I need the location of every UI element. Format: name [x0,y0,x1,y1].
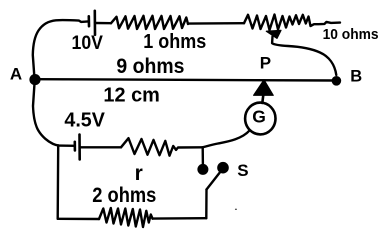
switch S left contact dot [197,164,208,175]
svg-text:12 cm: 12 cm [103,84,159,107]
svg-text:r: r [135,162,143,185]
jockey arrow at P [254,80,274,96]
wire left side of bottom loop up to junction [57,146,60,219]
wire junction to 4.5V battery [58,144,74,147]
wire junction down to switch left contact [201,147,204,165]
switch blade (open) [207,173,220,190]
svg-text:B: B [350,68,362,86]
rheostat 10 ohms zigzag [244,15,340,31]
battery 4.5V positive plate [78,135,81,160]
svg-text:A: A [10,64,22,83]
wire A to B (potentiometer wire) [35,79,336,80]
svg-text:S: S [237,161,248,180]
wire battery to resistor 1 ohms [95,22,111,25]
jockey stem [262,95,263,103]
svg-text:1 ohms: 1 ohms [143,31,206,53]
node A dot [29,74,40,85]
stray speck [235,208,237,210]
svg-text:10 ohms: 10 ohms [323,26,379,43]
junction left: wire from A down to 4.5V loop [33,85,58,146]
bottom wire left segment [58,218,99,221]
wire resistor 1 ohms to rheostat [188,22,244,25]
resistor r zigzag [121,138,176,156]
svg-text:2 ohms: 2 ohms [92,184,156,207]
battery 10V positive plate [94,11,97,35]
wire switch blade down right side of bottom loop [205,190,208,219]
rheostat wiper arrow [266,30,281,38]
svg-text:9 ohms: 9 ohms [116,55,184,78]
wire G to switch junction [203,131,250,148]
battery 10V negative plate [88,16,91,26]
svg-text:G: G [252,106,266,126]
galvanometer G circle [245,103,275,135]
resistor R 1 ohms zigzag [111,16,188,29]
svg-text:10V: 10V [72,33,104,54]
svg-text:4.5V: 4.5V [64,110,105,132]
wire wiper to node B [272,37,336,76]
switch S right contact dot [217,162,229,174]
wire 4.5V battery to resistor r [80,146,121,148]
node B dot [332,76,342,86]
wire from node A up and right to 10V battery [33,20,88,76]
wire resistor r to switch junction [176,147,203,150]
battery 4.5V negative plate [74,142,77,151]
bottom wire right segment [153,217,207,220]
svg-text:P: P [260,54,271,73]
resistor 2 ohms zigzag [99,208,153,227]
